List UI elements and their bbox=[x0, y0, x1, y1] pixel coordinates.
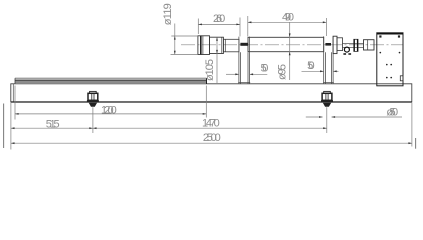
svg-text:490: 490 bbox=[282, 11, 294, 23]
svg-text:ø105: ø105 bbox=[204, 59, 216, 81]
svg-text:1470: 1470 bbox=[202, 117, 220, 129]
svg-text:50: 50 bbox=[307, 60, 315, 72]
svg-text:ø119: ø119 bbox=[162, 3, 174, 25]
svg-text:ø50: ø50 bbox=[386, 107, 398, 119]
svg-text:260: 260 bbox=[213, 13, 225, 25]
svg-text:50: 50 bbox=[261, 63, 269, 75]
svg-text:ø95: ø95 bbox=[277, 64, 289, 80]
svg-text:1200: 1200 bbox=[101, 104, 117, 116]
svg-text:2500: 2500 bbox=[203, 132, 221, 144]
svg-text:515: 515 bbox=[46, 119, 60, 131]
